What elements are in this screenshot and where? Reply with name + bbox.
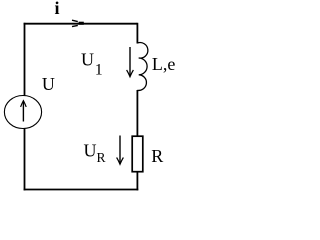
svg-text:U: U bbox=[84, 140, 97, 160]
resistor R bbox=[132, 136, 143, 172]
wire: top horizontal bbox=[24, 23, 138, 25]
svg-text:L,e: L,e bbox=[152, 54, 175, 74]
up arrow inside source bbox=[21, 101, 27, 122]
wire: left vertical (bottom segment, below source) bbox=[24, 128, 26, 190]
svg-text:1: 1 bbox=[95, 62, 103, 79]
wire: right vertical (top segment, above inductor) bbox=[136, 23, 138, 44]
wire: right vertical (between inductor and resistor) bbox=[136, 90, 138, 136]
U_R arrow (down, beside resistor) bbox=[117, 136, 124, 165]
svg-text:i: i bbox=[55, 0, 60, 18]
svg-text:R: R bbox=[97, 150, 106, 165]
current arrowhead on top wire bbox=[72, 20, 84, 26]
svg-text:U: U bbox=[81, 49, 94, 69]
wire: bottom horizontal bbox=[24, 189, 139, 191]
svg-text:R: R bbox=[151, 146, 163, 166]
voltage source U1 circle bbox=[4, 96, 41, 129]
inductor L,e coil bbox=[137, 43, 147, 91]
U_l arrow (down, beside inductor) bbox=[127, 47, 134, 77]
wire: right vertical (below resistor) bbox=[136, 172, 138, 190]
svg-text:U: U bbox=[42, 74, 55, 94]
wire: left vertical (top segment, above source) bbox=[24, 23, 26, 96]
